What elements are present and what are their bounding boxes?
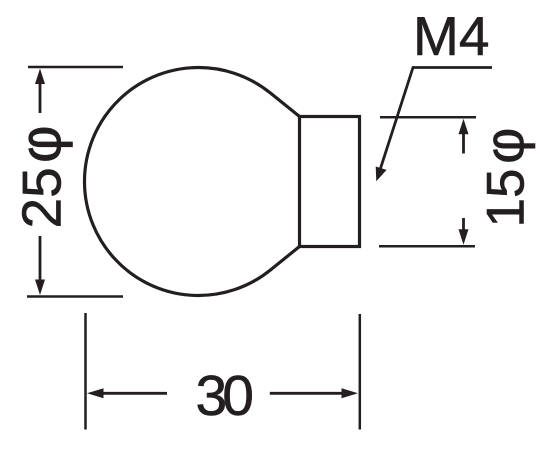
svg-text:15 φ: 15 φ (473, 128, 536, 228)
dim 30 left extension line (84, 313, 87, 430)
dim 25phi upper arrow shaft (39, 82, 42, 113)
arrowhead 25phi up (35, 69, 45, 85)
dim 30 right extension line (359, 314, 362, 430)
svg-text:30: 30 (196, 364, 253, 428)
svg-text:25 φ: 25 φ (9, 125, 74, 228)
dim 30 left arrow shaft (101, 392, 167, 395)
knob neck rectangle (300, 117, 360, 247)
dim 25phi lower arrow shaft (39, 236, 42, 281)
dim 25phi top extension line (28, 66, 123, 69)
dim 15phi lower arrow shaft (462, 218, 465, 231)
arrowhead 30 right (342, 388, 359, 398)
arrowhead 30 left (87, 388, 104, 398)
M4 leader line (380, 68, 493, 172)
dim 25phi bottom extension line (27, 295, 123, 298)
dim 15phi upper arrow shaft (462, 133, 465, 154)
arrowhead M4 leader (376, 167, 387, 182)
arrowhead 25phi down (35, 280, 45, 296)
dim 30 right arrow shaft (270, 392, 343, 395)
arrowhead 15phi up (459, 119, 469, 135)
arrowhead 15phi down (459, 229, 469, 245)
dim 15phi top extension line (380, 116, 476, 119)
svg-text:M4: M4 (413, 5, 489, 67)
knob ball outline (84, 68, 299, 296)
dim 15phi bottom extension line (379, 245, 475, 248)
